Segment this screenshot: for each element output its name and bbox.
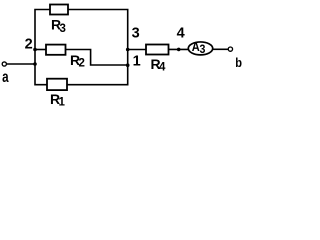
wire node2 to R2: [35, 49, 46, 51]
wire node3 to R4: [128, 49, 146, 51]
svg-text:1: 1: [59, 96, 66, 108]
node 1 junction dot: [126, 63, 130, 67]
resistor R1: [47, 79, 67, 90]
wire R2 jog to node 1: [66, 50, 128, 66]
wire left bus with top corner to R3 and bottom corner to R1: [35, 10, 50, 85]
svg-text:b: b: [235, 55, 242, 70]
terminal a: [2, 62, 6, 66]
wire R3 right to right bus down to R1 level: [67, 10, 128, 85]
wire ammeter to terminal b: [213, 48, 228, 50]
resistor R4: [146, 45, 169, 55]
node 2 junction dot: [33, 48, 37, 52]
svg-text:2: 2: [25, 36, 33, 52]
node a junction dot: [33, 62, 37, 66]
resistor R3: [50, 5, 68, 15]
node 4 junction dot: [177, 48, 181, 52]
wire R4 to ammeter through node 4: [169, 48, 190, 50]
resistor R2: [46, 45, 66, 55]
svg-text:3: 3: [200, 44, 206, 57]
svg-text:4: 4: [159, 62, 166, 74]
svg-text:4: 4: [177, 25, 185, 41]
svg-text:3: 3: [60, 23, 66, 35]
node 3 junction dot: [126, 48, 130, 52]
svg-text:3: 3: [132, 25, 140, 41]
svg-text:a: a: [2, 68, 9, 85]
ammeter A3: [188, 42, 212, 55]
svg-text:1: 1: [133, 53, 141, 69]
svg-text:2: 2: [79, 58, 85, 70]
wire a to left bus: [7, 63, 36, 65]
terminal b: [228, 47, 232, 51]
